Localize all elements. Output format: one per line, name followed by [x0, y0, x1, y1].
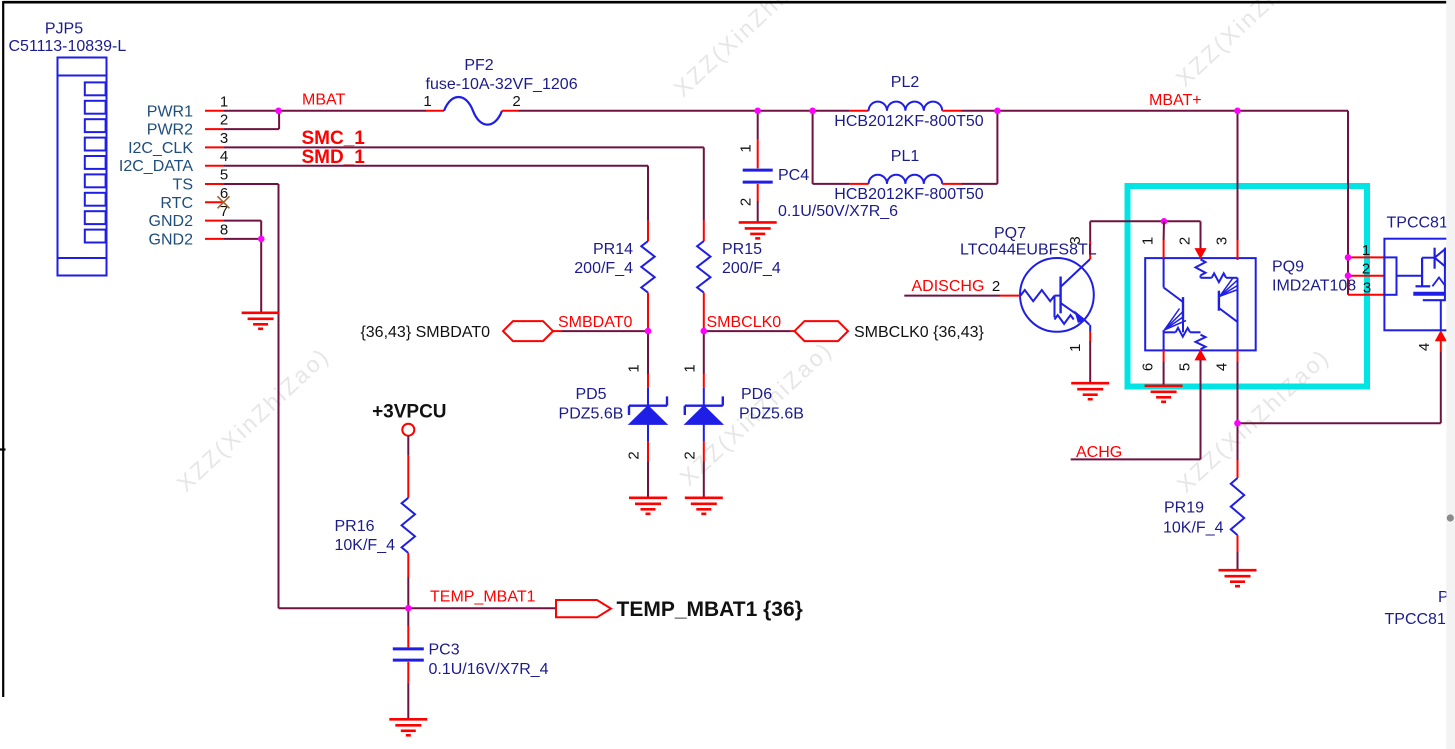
svg-text:PWR1: PWR1	[147, 103, 193, 120]
svg-text:1: 1	[423, 93, 431, 110]
svg-text:10K/F_4: 10K/F_4	[335, 537, 396, 554]
svg-text:PC3: PC3	[429, 642, 460, 659]
svg-text:SMC_1: SMC_1	[302, 128, 366, 149]
svg-text:I2C_DATA: I2C_DATA	[119, 158, 193, 175]
svg-text:3: 3	[220, 130, 228, 147]
svg-text:0.1U/50V/X7R_6: 0.1U/50V/X7R_6	[778, 203, 898, 220]
svg-text:2: 2	[220, 112, 228, 129]
svg-text:PDZ5.6B: PDZ5.6B	[559, 406, 624, 423]
svg-text:C51113-10839-L: C51113-10839-L	[9, 38, 127, 55]
svg-text:GND2: GND2	[149, 231, 194, 248]
svg-text:TPCC811: TPCC811	[1387, 215, 1455, 232]
svg-text:1: 1	[1140, 237, 1157, 245]
svg-text:4: 4	[1416, 343, 1433, 351]
svg-text:PC4: PC4	[778, 167, 809, 184]
svg-text:200/F_4: 200/F_4	[574, 260, 633, 277]
svg-text:PD5: PD5	[575, 386, 606, 403]
svg-text:PD6: PD6	[741, 386, 772, 403]
svg-text:PR15: PR15	[722, 241, 762, 258]
svg-text:{36,43} SMBDAT0: {36,43} SMBDAT0	[360, 324, 490, 341]
svg-text:3: 3	[1214, 237, 1231, 245]
svg-text:1: 1	[681, 364, 698, 372]
svg-text:0.1U/16V/X7R_4: 0.1U/16V/X7R_4	[429, 661, 549, 678]
svg-text:1: 1	[626, 364, 643, 372]
svg-text:PJP5: PJP5	[45, 21, 83, 38]
svg-text:SMBCLK0 {36,43}: SMBCLK0 {36,43}	[854, 324, 985, 341]
svg-text:TS: TS	[173, 177, 193, 194]
svg-text:2: 2	[626, 451, 643, 459]
svg-text:I2C_CLK: I2C_CLK	[128, 140, 193, 157]
svg-text:2: 2	[738, 198, 755, 206]
svg-text:PWR2: PWR2	[147, 122, 193, 139]
svg-text:PR16: PR16	[335, 518, 375, 535]
svg-text:1: 1	[220, 93, 228, 110]
svg-text:10K/F_4: 10K/F_4	[1163, 520, 1224, 537]
svg-text:3: 3	[1363, 280, 1371, 297]
svg-text:2: 2	[992, 278, 1000, 295]
svg-text:IMD2AT108: IMD2AT108	[1272, 278, 1356, 295]
svg-text:2: 2	[1362, 261, 1370, 278]
svg-text:SMBDAT0: SMBDAT0	[558, 314, 632, 331]
svg-text:2: 2	[512, 93, 520, 110]
svg-text:fuse-10A-32VF_1206: fuse-10A-32VF_1206	[426, 76, 578, 93]
svg-text:MBAT+: MBAT+	[1149, 92, 1202, 109]
svg-text:2: 2	[1177, 237, 1194, 245]
svg-text:1: 1	[1362, 242, 1370, 259]
svg-text:200/F_4: 200/F_4	[722, 260, 781, 277]
svg-text:HCB2012KF-800T50: HCB2012KF-800T50	[834, 113, 984, 130]
svg-text:4: 4	[220, 148, 228, 165]
svg-text:1: 1	[1067, 344, 1084, 352]
svg-text:6: 6	[1140, 363, 1157, 371]
svg-text:5: 5	[1177, 363, 1194, 371]
svg-text:+3VPCU: +3VPCU	[372, 402, 446, 423]
svg-text:ACHG: ACHG	[1076, 444, 1122, 461]
svg-text:GND2: GND2	[149, 213, 194, 230]
svg-text:TPCC81: TPCC81	[1385, 611, 1446, 628]
svg-text:MBAT: MBAT	[302, 92, 345, 109]
svg-text:PL1: PL1	[891, 148, 920, 165]
svg-text:PDZ5.6B: PDZ5.6B	[739, 406, 804, 423]
svg-text:2: 2	[681, 451, 698, 459]
svg-text:PR14: PR14	[593, 241, 633, 258]
svg-text:PQ7: PQ7	[994, 225, 1026, 242]
svg-text:HCB2012KF-800T50: HCB2012KF-800T50	[834, 186, 984, 203]
svg-text:PF2: PF2	[464, 57, 493, 74]
svg-text:1: 1	[738, 144, 755, 152]
svg-text:TEMP_MBAT1 {36}: TEMP_MBAT1 {36}	[617, 598, 803, 621]
svg-text:LTC044EUBFS8TL: LTC044EUBFS8TL	[960, 242, 1097, 259]
svg-text:TEMP_MBAT1: TEMP_MBAT1	[430, 589, 536, 606]
svg-text:SMBCLK0: SMBCLK0	[707, 314, 782, 331]
svg-text:5: 5	[220, 167, 228, 184]
svg-text:PR19: PR19	[1164, 500, 1204, 517]
svg-text:8: 8	[220, 221, 228, 238]
svg-text:ADISCHG: ADISCHG	[912, 278, 985, 295]
svg-text:4: 4	[1214, 363, 1231, 371]
svg-text:PQ9: PQ9	[1272, 259, 1304, 276]
svg-text:RTC: RTC	[160, 195, 193, 212]
svg-text:PL2: PL2	[891, 74, 920, 91]
